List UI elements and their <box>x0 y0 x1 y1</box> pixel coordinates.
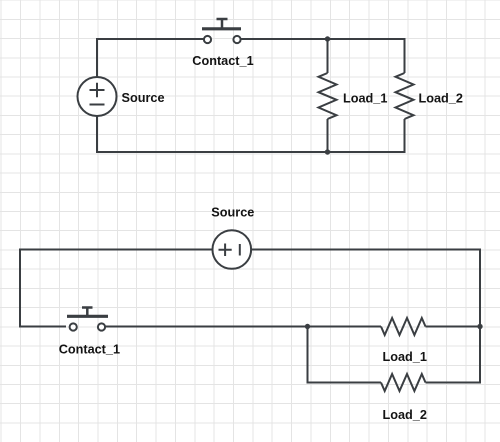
wire: right vertical upper segment down to Load_2 <box>404 38 406 73</box>
wire: branch vertical down from junction <box>307 327 309 383</box>
wire: Load_1 branch lower segment to bottom-rail junction <box>327 119 329 152</box>
svg-text:Load_2: Load_2 <box>419 91 463 105</box>
label Contact_1 (top circuit) <box>192 54 253 68</box>
wire: right vertical lower segment from Load_2 to bottom rail <box>404 119 406 153</box>
svg-text:Load_1: Load_1 <box>343 91 387 105</box>
wire: branch right vertical up to main rail <box>479 327 481 383</box>
wire: main rail from Load_1 to right corner <box>426 326 481 328</box>
svg-text:Source: Source <box>122 91 165 105</box>
svg-text:Contact_1: Contact_1 <box>192 54 253 68</box>
wire: branch horizontal from Load_2 to right vertical <box>426 382 482 384</box>
wire: top-left vertical from top rail down to Source top <box>96 39 98 77</box>
svg-text:Load_1: Load_1 <box>383 350 427 364</box>
svg-text:Load_2: Load_2 <box>383 408 427 422</box>
voltage source Source (top circuit) <box>78 77 117 116</box>
junction node: top rail / Load_1 branch <box>325 36 330 41</box>
resistor Load_2 (bottom circuit) <box>381 374 426 391</box>
wire: left vertical <box>19 249 21 328</box>
label Load_1 (top circuit) <box>343 91 387 105</box>
wire: main rail from left corner to Contact_1 left terminal <box>19 326 66 328</box>
wire: main rail from Contact_1 right terminal to Load_1 <box>105 326 381 328</box>
push-button contact Contact_1 (bottom circuit) <box>67 308 108 331</box>
label Source (top circuit) <box>122 91 165 105</box>
junction node: bottom rail / Load_1 branch <box>325 149 330 154</box>
wire: top rail right segment from Contact_1 right terminal to right corner <box>241 38 405 40</box>
label Load_1 (bottom circuit) <box>383 350 427 364</box>
resistor Load_1 (bottom circuit) <box>381 318 426 335</box>
wire: bottom rail <box>96 151 405 153</box>
label Load_2 (bottom circuit) <box>383 408 427 422</box>
junction node: main rail / branch <box>305 324 310 329</box>
voltage source Source (bottom circuit) <box>213 230 252 269</box>
label Source (bottom circuit) <box>211 205 254 219</box>
wire: right vertical <box>479 249 481 327</box>
wire: Load_1 branch upper segment from top-rail junction <box>327 39 329 73</box>
resistor Load_1 (top circuit) <box>319 73 337 119</box>
wire: branch horizontal from vertical to Load_2 <box>307 382 382 384</box>
wire: top rail right segment from Source to right corner <box>251 249 480 251</box>
wire: top rail left segment from corner to Contact_1 left terminal <box>96 38 204 40</box>
label Contact_1 (bottom circuit) <box>59 342 120 356</box>
svg-text:Contact_1: Contact_1 <box>59 342 120 356</box>
wire: bottom-left vertical from Source bottom to bottom rail <box>96 116 98 153</box>
svg-text:Source: Source <box>211 205 254 219</box>
resistor Load_2 (top circuit) <box>396 73 414 119</box>
push-button contact Contact_1 (top circuit) <box>202 19 241 43</box>
wire: top rail left segment from left corner to Source <box>19 249 213 251</box>
label Load_2 (top circuit) <box>419 91 463 105</box>
junction node: main rail / right vertical <box>477 324 482 329</box>
